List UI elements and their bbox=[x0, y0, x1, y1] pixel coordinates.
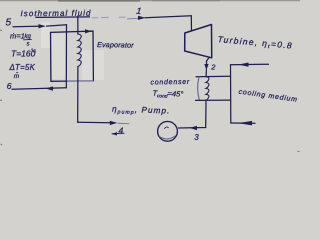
svg-text:ΔT=5K: ΔT=5K bbox=[9, 63, 36, 72]
stream 6 arrowhead bbox=[46, 86, 54, 90]
evaporator box bbox=[51, 31, 94, 81]
wire from arrow to hot pipe corner bbox=[47, 25, 67, 26]
stream 3 label bbox=[194, 133, 199, 142]
page edge specks bbox=[0, 30, 300, 152]
svg-text:°c: °c bbox=[31, 49, 36, 55]
condenser top line bbox=[196, 75, 231, 77]
stream 6 wire bbox=[12, 88, 66, 90]
condenser label bbox=[150, 79, 190, 87]
working fluid pipe bottom bbox=[77, 67, 79, 123]
evaporator label bbox=[97, 40, 134, 50]
stream 4 wire toward pump bbox=[78, 121, 111, 124]
label T=160 bbox=[11, 49, 36, 59]
faint dash continuation bbox=[92, 16, 125, 19]
cooling medium label bbox=[238, 89, 298, 104]
svg-text:6: 6 bbox=[7, 81, 12, 91]
condenser coil bbox=[206, 77, 209, 101]
stream 4 arrowhead bbox=[110, 121, 118, 125]
turbine bbox=[185, 25, 212, 58]
svg-text:condenser: condenser bbox=[150, 79, 190, 87]
stream 6 label bbox=[7, 81, 12, 91]
faint wire continuing to pump bbox=[118, 122, 129, 124]
page top edge bbox=[0, 0, 300, 2]
pump label bbox=[112, 105, 171, 118]
stream 5 label bbox=[6, 17, 12, 28]
stream 1 wire bbox=[145, 16, 191, 18]
cooling bottom stub bbox=[231, 122, 255, 124]
svg-text:3: 3 bbox=[194, 133, 199, 142]
stream 2 label bbox=[210, 63, 216, 72]
svg-text:Evaporator: Evaporator bbox=[97, 40, 134, 50]
label Tcond=45 bbox=[152, 89, 183, 101]
stream 5 arrowhead bbox=[39, 24, 46, 28]
wire down to turbine bbox=[190, 16, 192, 31]
condenser shell left arc bbox=[198, 77, 200, 101]
cooling bottom arrowhead bbox=[238, 121, 252, 126]
svg-text:4: 4 bbox=[119, 126, 124, 136]
stream 1 faint lead bbox=[128, 17, 141, 20]
pump P bbox=[158, 121, 178, 141]
svg-text:ṁ=1: ṁ=1 bbox=[10, 31, 25, 40]
pump inner tick bbox=[165, 127, 169, 129]
working fluid pipe top bbox=[77, 16, 79, 34]
wire from arrow to condenser bbox=[205, 70, 207, 77]
stream 4 small arrow bbox=[112, 132, 124, 135]
stream 3 arrowhead bbox=[190, 126, 198, 130]
svg-text:2: 2 bbox=[210, 63, 216, 72]
stream 2 wire from turbine bbox=[207, 58, 210, 66]
cooling top stub bbox=[231, 63, 269, 66]
stream 1 label bbox=[136, 6, 142, 17]
stream 1 arrowhead bbox=[138, 16, 146, 20]
stream 3 wire down from condenser bbox=[179, 100, 207, 128]
turbine label bbox=[217, 34, 293, 52]
stream 2 arrowhead bbox=[204, 64, 208, 70]
underline of Isothermal fluid (stream 1 lead) bbox=[36, 16, 90, 19]
arrowhead on evaporator top edge bbox=[85, 29, 92, 33]
pump sketch double stroke bbox=[160, 136, 176, 139]
label: Isothermal fluid bbox=[20, 9, 91, 19]
paper background bbox=[0, 0, 300, 158]
svg-text:5: 5 bbox=[6, 17, 12, 28]
svg-text:m̂: m̂ bbox=[14, 72, 20, 80]
label m=1 kg/s bbox=[10, 31, 32, 47]
stream 4 label bbox=[119, 126, 124, 136]
evaporator coil bbox=[78, 34, 81, 67]
cooling water vertical pipe bbox=[230, 65, 232, 123]
svg-text:s: s bbox=[27, 41, 30, 47]
hot fluid pipe vertical bbox=[65, 25, 67, 88]
label dT=5K bbox=[9, 63, 36, 72]
stream 5 wire bbox=[13, 25, 44, 28]
svg-text:kg: kg bbox=[25, 34, 32, 40]
condenser bottom line bbox=[196, 99, 231, 101]
cooling top arrowhead bbox=[239, 63, 249, 67]
